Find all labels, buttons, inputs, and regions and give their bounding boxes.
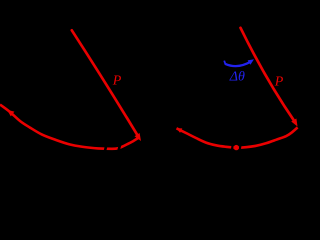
blue arc end tick — [224, 61, 225, 65]
arrowhead on left curve — [7, 110, 14, 117]
svg-text:Δθ: Δθ — [229, 70, 245, 85]
arrowhead on right curve start — [176, 128, 182, 133]
tick mark (left curve, hatch 2) — [118, 143, 120, 153]
arrowhead of right vector — [291, 119, 297, 127]
blue arc arrowhead — [248, 59, 254, 64]
blue angle arc — [225, 62, 251, 66]
svg-text:P: P — [112, 74, 122, 89]
tick mark (left curve, hatch 1) — [105, 142, 107, 152]
wire (left trajectory curve) — [0, 105, 139, 149]
arrowhead of left vector — [135, 133, 142, 141]
wire (right incoming vector / rod) — [241, 28, 295, 122]
wire (left incoming vector / rod) — [72, 30, 138, 136]
ball P on right curve — [234, 145, 239, 150]
wire (right trajectory curve) — [177, 127, 298, 147]
svg-text:P: P — [274, 74, 284, 89]
tick mark (right curve, right of ball) — [240, 144, 241, 152]
tick mark (right curve, left of ball) — [232, 144, 233, 152]
